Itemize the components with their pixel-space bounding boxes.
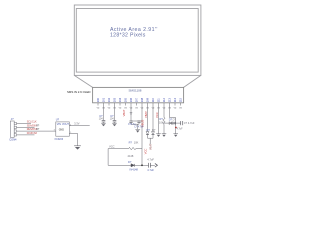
svg-text:SCL/CLK: SCL/CLK <box>27 121 37 124</box>
svg-text:4148: 4148 <box>128 154 134 158</box>
svg-text:IN4148: IN4148 <box>130 168 139 172</box>
svg-text:VCC: VCC <box>109 145 115 149</box>
svg-text:SMS1108: SMS1108 <box>129 88 142 92</box>
svg-text:R?: R? <box>36 128 40 131</box>
svg-text:104: 104 <box>118 97 122 102</box>
svg-text:J?: J? <box>11 117 14 121</box>
svg-text:VBUS: VBUS <box>140 119 144 127</box>
svg-text:C? 4.7uF: C? 4.7uF <box>184 121 195 125</box>
svg-text:3: 3 <box>54 130 56 132</box>
svg-text:VBAT: VBAT <box>122 109 126 116</box>
svg-text:VOUT: VOUT <box>62 123 69 126</box>
svg-text:D/C#CS#: D/C#CS# <box>27 132 38 135</box>
svg-text:C?: C? <box>110 114 114 118</box>
svg-text:R?: R? <box>160 117 164 121</box>
svg-text:102: 102 <box>107 97 111 102</box>
svg-text:105: 105 <box>123 97 127 102</box>
svg-text:100: 100 <box>96 97 100 102</box>
svg-text:10K: 10K <box>134 141 139 145</box>
svg-text:GND: GND <box>59 129 65 132</box>
svg-text:D?: D? <box>173 118 177 122</box>
svg-text:SMS IN 2.9 OLED: SMS IN 2.9 OLED <box>67 90 90 94</box>
svg-text:111: 111 <box>156 98 160 102</box>
svg-text:XC6206: XC6206 <box>54 138 63 141</box>
svg-text:Vd: Vd <box>157 107 160 109</box>
svg-text:112: 112 <box>162 98 166 103</box>
svg-text:D?: D? <box>147 128 151 132</box>
svg-text:Vd: Vd <box>102 107 105 109</box>
svg-text:D?: D? <box>128 160 132 164</box>
svg-text:Vd: Vd <box>113 107 116 109</box>
svg-text:110: 110 <box>151 98 155 103</box>
svg-text:C?: C? <box>99 114 103 118</box>
svg-text:128*32 Pixels: 128*32 Pixels <box>110 33 146 39</box>
svg-text:VIN: VIN <box>57 123 61 126</box>
svg-text:Vd: Vd <box>97 107 100 109</box>
svg-text:103: 103 <box>112 97 116 102</box>
svg-text:Vd: Vd <box>108 107 111 109</box>
svg-text:Vd: Vd <box>179 107 182 109</box>
svg-text:115: 115 <box>178 98 182 103</box>
svg-text:3.3V: 3.3V <box>74 122 80 126</box>
svg-text:VBAT: VBAT <box>144 111 148 118</box>
svg-text:107: 107 <box>134 97 138 102</box>
svg-text:114: 114 <box>173 98 177 103</box>
svg-text:Vd: Vd <box>119 107 122 109</box>
svg-text:U?: U? <box>56 118 60 122</box>
svg-text:2: 2 <box>70 124 72 126</box>
svg-text:SDA/DIN: SDA/DIN <box>27 124 37 127</box>
svg-text:Vd: Vd <box>168 107 171 109</box>
svg-text:D?: D? <box>152 128 156 132</box>
svg-text:1: 1 <box>70 132 72 134</box>
svg-text:106: 106 <box>129 97 133 102</box>
svg-text:113: 113 <box>167 98 171 103</box>
svg-text:VCC: VCC <box>155 112 159 118</box>
svg-text:Vd: Vd <box>174 107 177 109</box>
svg-text:4.7uF: 4.7uF <box>147 158 154 162</box>
svg-text:R?: R? <box>129 141 133 145</box>
svg-text:Vd: Vd <box>152 107 155 109</box>
svg-text:Vd: Vd <box>124 107 127 109</box>
svg-text:Vd: Vd <box>135 107 138 109</box>
svg-text:CON4: CON4 <box>9 138 17 142</box>
svg-text:108: 108 <box>140 97 144 102</box>
svg-text:R?: R? <box>36 124 40 127</box>
svg-text:109: 109 <box>145 97 149 102</box>
svg-text:VCC: VCC <box>143 149 147 155</box>
svg-text:4.7uF: 4.7uF <box>177 129 183 131</box>
svg-text:Vd: Vd <box>130 107 133 109</box>
svg-text:101: 101 <box>101 97 105 102</box>
svg-text:VBAT: VBAT <box>150 143 153 150</box>
svg-text:4.7uF: 4.7uF <box>147 168 154 172</box>
svg-text:Vd: Vd <box>146 107 149 109</box>
svg-text:Vd: Vd <box>163 107 166 109</box>
svg-text:Vd: Vd <box>141 107 144 109</box>
svg-text:10K: 10K <box>159 120 164 124</box>
